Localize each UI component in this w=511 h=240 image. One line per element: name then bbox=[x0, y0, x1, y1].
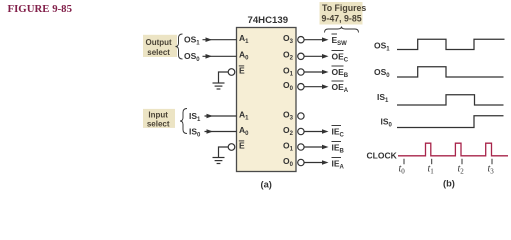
ground (top half) bbox=[213, 82, 225, 84]
brace for OS inputs bbox=[176, 34, 183, 59]
wire O3 to ESW with arrowhead bbox=[304, 39, 322, 41]
svg-text:select: select bbox=[147, 120, 170, 129]
brace for IS inputs bbox=[180, 109, 187, 134]
output bubble O1 (top half) bbox=[298, 69, 304, 75]
svg-text:E: E bbox=[239, 65, 245, 75]
time tick t0 bbox=[403, 159, 405, 164]
svg-text:select: select bbox=[147, 48, 170, 57]
enable bubble E (top half) bbox=[228, 69, 235, 76]
svg-text:Output: Output bbox=[145, 38, 172, 47]
svg-text:To Figures: To Figures bbox=[322, 3, 366, 13]
waveform CLOCK bbox=[398, 143, 508, 156]
output bubble O0 (top half) bbox=[298, 84, 304, 90]
wire OS1 to A1 with arrowhead bbox=[203, 39, 237, 41]
wire O1 to OEB with arrowhead bbox=[304, 71, 322, 73]
wire OS0 to A0 with arrowhead bbox=[203, 55, 237, 57]
brace over ESW output bbox=[325, 27, 359, 33]
svg-text:(a): (a) bbox=[261, 179, 272, 189]
svg-text:74HC139: 74HC139 bbox=[248, 15, 289, 26]
wire O1 to IEB with arrowhead bbox=[304, 146, 322, 148]
wire IS0 to A0 with arrowhead bbox=[205, 131, 237, 133]
output bubble O0 (bottom half) bbox=[298, 159, 304, 165]
chip U1 74HC139 body bbox=[237, 28, 297, 172]
callout box Input select bbox=[143, 109, 175, 128]
wire O2 to OEC with arrowhead bbox=[304, 55, 322, 57]
time tick t3 bbox=[491, 159, 493, 164]
time tick t2 bbox=[461, 159, 463, 164]
wire IS1 to A1 with arrowhead bbox=[205, 115, 237, 117]
output bubble O1 (bottom half) bbox=[298, 144, 304, 150]
callout box Output select bbox=[143, 35, 177, 57]
ground (bottom half) bbox=[213, 157, 225, 159]
output bubble O3 (top half) bbox=[298, 37, 304, 43]
output bubble O2 (top half) bbox=[298, 53, 304, 59]
waveform OS1 bbox=[397, 39, 505, 49]
wire enable to ground (bottom half) bbox=[219, 147, 229, 157]
wire enable to ground (top half) bbox=[219, 72, 229, 83]
callout box To Figures 9-47, 9-85 bbox=[320, 2, 363, 25]
svg-text:FIGURE 9-85: FIGURE 9-85 bbox=[8, 3, 72, 15]
svg-text:9-47, 9-85: 9-47, 9-85 bbox=[322, 14, 362, 24]
svg-text:Input: Input bbox=[148, 110, 168, 119]
svg-text:E: E bbox=[239, 140, 245, 150]
svg-text:(b): (b) bbox=[443, 179, 455, 189]
svg-text:CLOCK: CLOCK bbox=[367, 151, 398, 161]
enable bubble E (bottom half) bbox=[228, 144, 235, 151]
waveform IS1 bbox=[397, 95, 504, 105]
output bubble O2 (bottom half) bbox=[298, 128, 304, 134]
wire O0 to IEA with arrowhead bbox=[304, 162, 322, 164]
time tick t1 bbox=[431, 159, 433, 164]
output bubble O3 (bottom half, unconnected) bbox=[298, 113, 304, 119]
waveform IS0 bbox=[397, 116, 504, 128]
waveform OS0 bbox=[397, 67, 504, 77]
wire O2 to IEC with arrowhead bbox=[304, 131, 322, 133]
wire O0 to OEA with arrowhead bbox=[304, 86, 322, 88]
